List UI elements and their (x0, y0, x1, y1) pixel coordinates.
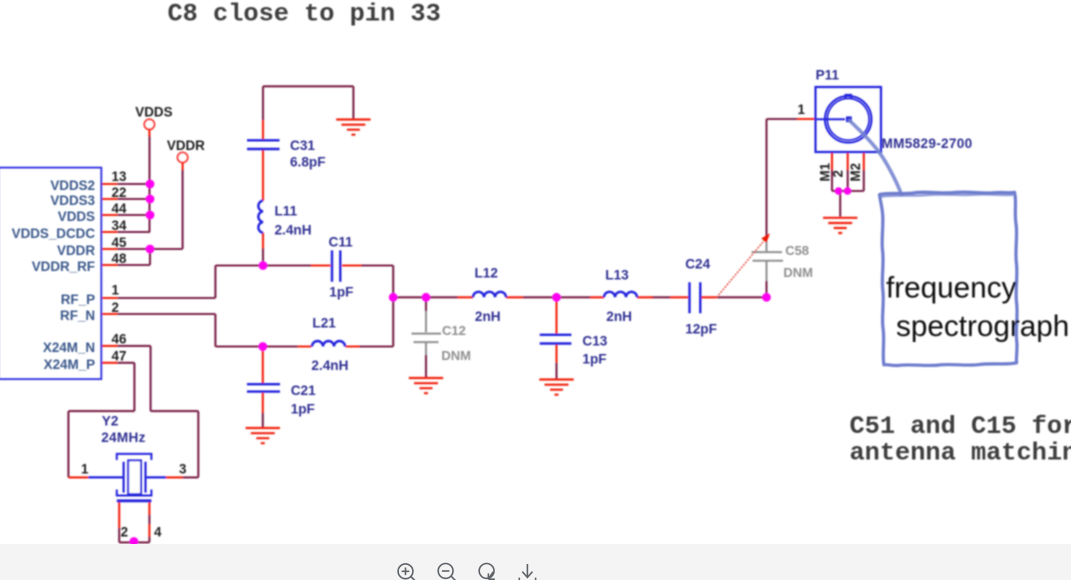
svg-text:VDDS: VDDS (58, 209, 95, 224)
svg-text:DNM: DNM (783, 265, 813, 280)
svg-text:47: 47 (112, 349, 127, 364)
svg-text:VDDS2: VDDS2 (50, 178, 95, 193)
svg-text:6.8pF: 6.8pF (290, 155, 326, 170)
svg-text:4: 4 (154, 525, 162, 540)
svg-text:3: 3 (179, 462, 186, 477)
svg-text:24MHz: 24MHz (101, 430, 146, 445)
svg-text:VDDR_RF: VDDR_RF (32, 259, 95, 274)
svg-text:MM5829-2700: MM5829-2700 (882, 136, 973, 151)
svg-text:C51 and C15 for: C51 and C15 for (850, 412, 1071, 441)
svg-text:45: 45 (112, 235, 127, 250)
svg-text:X24M_N: X24M_N (43, 340, 95, 355)
svg-text:1: 1 (112, 283, 120, 298)
svg-text:C13: C13 (582, 334, 607, 349)
svg-text:C8 close to pin 33: C8 close to pin 33 (168, 0, 441, 29)
svg-text:X24M_P: X24M_P (44, 357, 95, 372)
svg-text:DNM: DNM (441, 348, 471, 363)
svg-text:C24: C24 (685, 256, 710, 271)
svg-text:Y2: Y2 (102, 414, 119, 429)
svg-text:L12: L12 (475, 266, 499, 281)
svg-text:2.4nH: 2.4nH (311, 358, 348, 373)
svg-text:C31: C31 (290, 138, 315, 153)
svg-text:1pF: 1pF (329, 285, 353, 300)
svg-text:M2: M2 (848, 163, 863, 182)
svg-text:C12: C12 (442, 323, 466, 338)
svg-text:L21: L21 (312, 316, 336, 331)
svg-text:2: 2 (121, 525, 128, 540)
svg-text:L11: L11 (275, 204, 298, 219)
svg-text:1: 1 (798, 102, 806, 117)
svg-text:C21: C21 (291, 383, 316, 398)
svg-text:P11: P11 (816, 68, 840, 83)
svg-text:2: 2 (831, 170, 846, 177)
svg-text:2nH: 2nH (606, 309, 632, 324)
svg-text:L13: L13 (605, 267, 629, 282)
svg-text:C58: C58 (785, 243, 809, 258)
svg-text:12pF: 12pF (685, 322, 717, 337)
svg-text:2: 2 (112, 300, 119, 315)
svg-text:VDDS: VDDS (135, 105, 172, 120)
svg-text:VDDS_DCDC: VDDS_DCDC (12, 226, 96, 241)
svg-text:C11: C11 (329, 234, 354, 249)
svg-text:13: 13 (112, 169, 127, 184)
svg-text:VDDS3: VDDS3 (50, 193, 95, 208)
svg-text:VDDR: VDDR (167, 138, 205, 153)
svg-text:RF_N: RF_N (60, 308, 95, 323)
svg-text:22: 22 (112, 185, 127, 200)
svg-text:34: 34 (112, 218, 127, 233)
svg-text:VDDR: VDDR (57, 243, 95, 258)
svg-text:48: 48 (112, 251, 127, 266)
svg-text:frequency: frequency (886, 272, 1017, 305)
svg-text:44: 44 (112, 201, 127, 216)
svg-text:1pF: 1pF (582, 352, 606, 367)
svg-text:1: 1 (81, 462, 89, 477)
svg-text:2.4nH: 2.4nH (275, 223, 312, 238)
svg-text:RF_P: RF_P (61, 292, 95, 307)
svg-text:antenna matching: antenna matching (850, 439, 1071, 468)
svg-text:1pF: 1pF (291, 402, 315, 417)
svg-text:spectrograph: spectrograph (896, 310, 1069, 343)
svg-text:46: 46 (112, 332, 127, 347)
svg-text:2nH: 2nH (475, 309, 501, 324)
